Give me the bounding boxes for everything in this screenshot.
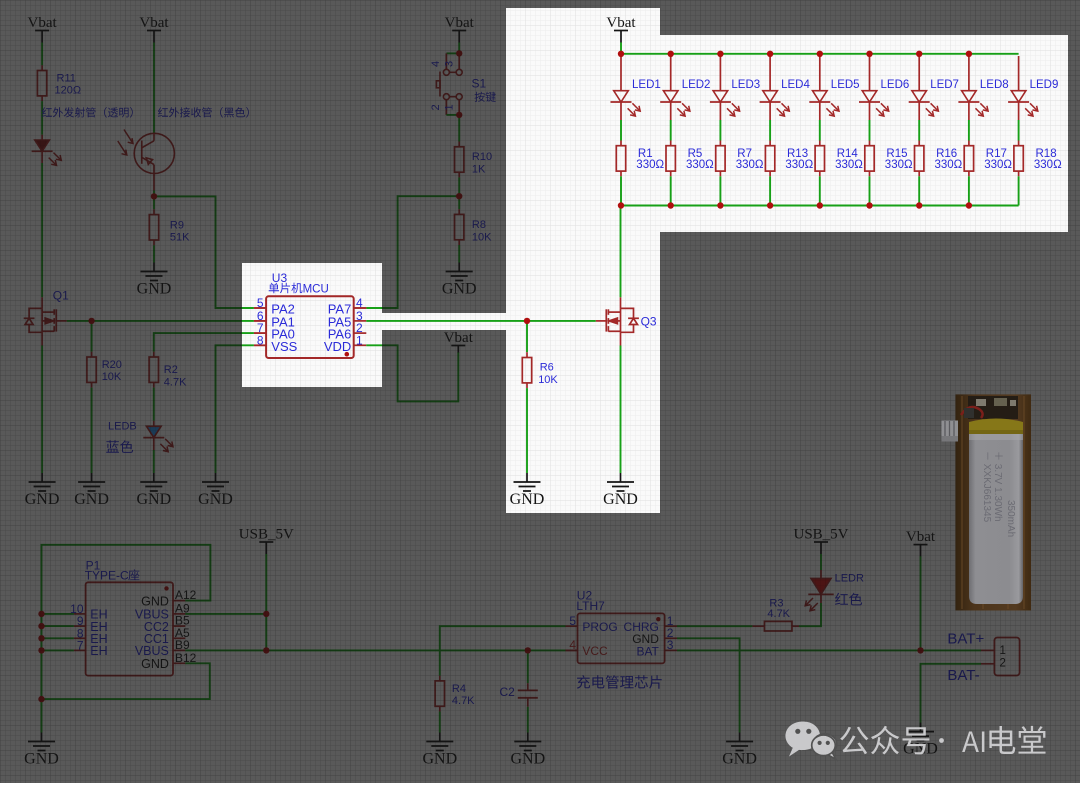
junction node top bus col 7	[916, 51, 922, 57]
svg-text:LED1: LED1	[632, 79, 661, 91]
junction nodes left rail	[38, 696, 44, 702]
junction node top bus col 5	[817, 51, 823, 57]
svg-text:LED4: LED4	[781, 79, 810, 91]
svg-text:＋ 3.7V 1.30Wh: ＋ 3.7V 1.30Wh	[992, 451, 1003, 522]
svg-text:330Ω: 330Ω	[636, 159, 664, 171]
junction node bottom bus col 7	[916, 202, 922, 208]
pin 7 EH	[74, 649, 86, 651]
wire node to MCU pin 5 PA2	[154, 196, 254, 308]
resistor R9	[149, 215, 158, 240]
wire Q3 source to ground	[620, 332, 622, 345]
svg-text:1: 1	[356, 333, 363, 347]
ground (P1)	[28, 733, 55, 751]
junction node bottom bus col 1	[618, 202, 624, 208]
wire R6 to ground	[526, 383, 528, 388]
junction node VCC / C2	[525, 647, 531, 653]
battery photo	[956, 394, 1032, 610]
wire R11 to IR LED	[41, 96, 43, 101]
svg-text:330Ω: 330Ω	[835, 159, 863, 171]
wire left rail to pin 8	[42, 637, 74, 639]
svg-text:U3: U3	[272, 271, 288, 285]
pin 10 EH	[74, 613, 86, 615]
svg-text:5: 5	[257, 296, 264, 310]
wire left rail to pin 9	[42, 625, 74, 627]
wire U2 GND to ground	[677, 638, 740, 732]
svg-text:330Ω: 330Ω	[686, 159, 714, 171]
junction node bottom bus col 4	[767, 202, 773, 208]
pin 1 marker dot P1	[164, 586, 168, 590]
svg-text:GND: GND	[510, 491, 545, 508]
svg-text:LED7: LED7	[930, 79, 959, 91]
resistor R8	[455, 214, 464, 239]
svg-text:VSS: VSS	[271, 339, 297, 354]
junction node S1 bottom	[456, 112, 462, 118]
junction node top bus col 1	[618, 51, 624, 57]
wire node to MCU pin 6 PA1	[92, 320, 254, 322]
svg-text:－ XXKJ661345: － XXKJ661345	[981, 451, 992, 523]
junction nodes left rail	[38, 611, 44, 617]
pin 5 PA2 / pin 4 PA7	[254, 307, 266, 309]
pin 1 marker dot U2	[656, 617, 660, 621]
junction node top bus col 3	[717, 51, 723, 57]
ground (R6)	[514, 473, 541, 491]
wire node to R9	[153, 196, 155, 209]
LED LED7 with resistor R16 branch	[918, 56, 920, 91]
wire node to R6	[526, 321, 528, 352]
junction nodes left rail	[38, 635, 44, 641]
ground (C2)	[514, 733, 541, 751]
pin 7 PA0 / pin 2 PA6	[254, 332, 266, 334]
junction node bottom bus col 3	[717, 202, 723, 208]
ground (R8)	[446, 263, 473, 281]
ground (VSS)	[202, 473, 229, 491]
LED LED9 with resistor R18 branch	[1018, 56, 1020, 91]
wire LEDB to ground	[153, 438, 155, 450]
junction node bottom bus col 8	[966, 202, 972, 208]
svg-text:4: 4	[356, 296, 363, 310]
junction nodes left rail	[38, 647, 44, 653]
svg-text:VDD: VDD	[324, 339, 351, 354]
wire U2 BAT to battery node	[677, 649, 921, 651]
pin 1 marker dot	[345, 352, 350, 357]
wire R9 to ground	[153, 240, 155, 245]
wire S1 to R10	[458, 115, 460, 142]
LED LED2 with resistor R5 branch	[670, 56, 672, 91]
resistor R10	[455, 147, 464, 172]
ground (U2)	[726, 733, 753, 751]
svg-text:Q3: Q3	[641, 315, 657, 329]
pin 5 PROG	[566, 625, 578, 627]
wire left rail to pin 10	[42, 613, 74, 615]
junction node A9 / USB_5V	[263, 611, 269, 617]
transistor Q1 (N-MOSFET)	[24, 308, 67, 332]
junction node BAT+	[917, 647, 923, 653]
op-amp U2 LTH7 box	[578, 613, 665, 663]
watermark WeChat icon	[785, 722, 820, 757]
op-amp U3 MCU box	[266, 296, 354, 358]
svg-text:8: 8	[257, 333, 264, 347]
label 单片机MCU	[269, 283, 303, 294]
LED LED4 with resistor R13 branch	[769, 56, 771, 91]
junction node Q1 gate / R20 / PA1	[88, 318, 94, 324]
wire node to C2	[527, 650, 529, 683]
wire MCU pin 3 PA5 to Q3 gate	[366, 320, 527, 322]
svg-text:LED3: LED3	[731, 79, 760, 91]
resistor R11	[37, 71, 46, 96]
junction node emitter / R9 / PA2	[151, 193, 157, 199]
junction node bottom bus col 2	[668, 202, 674, 208]
svg-text:330Ω: 330Ω	[736, 159, 764, 171]
wire USB_5V rail	[265, 554, 267, 650]
svg-text:GND: GND	[603, 491, 638, 508]
wire P1 VBUS A9 to USB_5V rail	[185, 613, 266, 615]
wire U2 CHRG to R3	[677, 625, 752, 627]
wire phototransistor emitter to node	[153, 165, 155, 191]
wire MCU pin 1 VDD to Vbat	[366, 345, 458, 401]
battery wire connector tab	[942, 421, 959, 442]
junction node B9 / USB_5V	[263, 647, 269, 653]
wire Vbat to S1	[458, 43, 460, 54]
svg-text:LED9: LED9	[1030, 79, 1059, 91]
pin 4 VCC	[566, 649, 578, 651]
svg-text:330Ω: 330Ω	[935, 159, 963, 171]
svg-text:330Ω: 330Ω	[984, 159, 1012, 171]
wire Vbat to phototransistor collector	[153, 43, 155, 134]
ground (R4)	[426, 733, 453, 751]
LED LED6 with resistor R15 branch	[869, 56, 871, 91]
ground (Q3)	[607, 473, 634, 491]
wire LED bus to Q3 drain	[620, 206, 622, 298]
ground (Q1 source)	[29, 473, 56, 491]
wire node to R20	[91, 321, 93, 352]
infrared emitter LED	[35, 140, 50, 151]
svg-text:R6: R6	[540, 362, 554, 374]
svg-text:MCU: MCU	[303, 283, 329, 295]
pin B9 VBUS	[173, 649, 185, 651]
svg-text:LED2: LED2	[682, 79, 711, 91]
wire node to connector pin 1	[921, 649, 982, 651]
label 红外接收管（黑色）	[158, 107, 249, 118]
wire IR LED to Q1 drain	[41, 152, 43, 164]
LED LED8 with resistor R17 branch	[968, 56, 970, 91]
watermark text 公众号 · AI电堂	[840, 726, 929, 755]
wire P1 GND B12 loop to left rail	[42, 663, 210, 699]
pin 8 VSS / pin 1 VDD	[254, 344, 266, 346]
svg-text:330Ω: 330Ω	[1034, 159, 1062, 171]
svg-text:350mAh: 350mAh	[1005, 500, 1016, 537]
resistor R2	[149, 357, 158, 382]
junction node bottom bus col 6	[866, 202, 872, 208]
svg-text:LED6: LED6	[881, 79, 910, 91]
LED LED5 with resistor R14 branch	[819, 56, 821, 91]
ground (LEDB)	[140, 473, 167, 491]
connector P1 TYPE-C box	[86, 582, 173, 675]
svg-text:10K: 10K	[538, 374, 558, 386]
pin B12 GND	[173, 662, 185, 664]
resistor R4	[435, 681, 444, 706]
junction node PA5 / R6 / Q3 gate	[524, 318, 530, 324]
svg-text:330Ω: 330Ω	[885, 159, 913, 171]
junction node bottom bus col 5	[817, 202, 823, 208]
junction node top bus col 6	[866, 51, 872, 57]
ground (battery)	[907, 723, 934, 741]
pin A9 VBUS	[173, 613, 185, 615]
junction node top bus col 4	[767, 51, 773, 57]
LED LEDB (blue)	[147, 426, 162, 437]
pin A5 CC1	[173, 637, 185, 639]
wire LEDR to USB_5V	[820, 570, 822, 578]
LED LED3 with resistor R7 branch	[719, 56, 721, 91]
svg-text:LED5: LED5	[831, 79, 860, 91]
wire P1 VBUS B9 to U2 VCC	[185, 649, 565, 651]
phototransistor (IR receiver)	[134, 133, 174, 173]
pin 2 GND	[665, 637, 677, 639]
wire R10 to node	[458, 172, 460, 177]
svg-text:330Ω: 330Ω	[785, 159, 813, 171]
label 红色	[835, 593, 862, 606]
pin B5 CC2	[173, 625, 185, 627]
junction node S1 top	[456, 50, 462, 56]
wire R2 to LEDB	[153, 382, 155, 387]
capacitor C2	[518, 690, 538, 697]
wire R8 to ground	[458, 240, 460, 245]
label 蓝色	[106, 440, 133, 453]
pin 1 CHRG	[665, 625, 677, 627]
wire U2 PROG to R4	[440, 626, 566, 676]
junction nodes left rail	[38, 623, 44, 629]
wire C2 to ground	[527, 698, 529, 707]
resistor R20	[87, 357, 96, 382]
junction node top bus col 2	[668, 51, 674, 57]
battery printed text	[981, 451, 1016, 537]
pin 6 PA1 / pin 3 PA5	[254, 320, 266, 322]
wire connector pin 2 to ground	[981, 663, 994, 665]
svg-text:LED8: LED8	[980, 79, 1009, 91]
transistor Q3 (N-MOSFET)	[596, 308, 639, 332]
label 按键	[475, 92, 496, 102]
ground (R9)	[141, 263, 168, 281]
wire node to R8	[458, 196, 460, 209]
junction node R10 / R8 / PA7	[456, 193, 462, 199]
wire MCU pin 8 VSS to ground	[254, 344, 266, 346]
wire left rail to pin 7	[42, 649, 74, 651]
wire R4 to ground	[439, 706, 441, 711]
wire MCU pin 7 PA0 to R2	[254, 332, 266, 334]
connector battery header box	[994, 638, 1019, 676]
wire LED top bus	[621, 53, 1019, 55]
wire Vbat to R11	[41, 43, 43, 66]
wire LED bottom bus	[621, 205, 1019, 207]
pin 8 EH	[74, 637, 86, 639]
wire P1 GND A12 loop to left rail	[42, 545, 211, 733]
wire R3 to LEDR	[792, 625, 799, 627]
resistor R3	[764, 621, 792, 631]
label 充电管理芯片	[577, 675, 662, 688]
resistor R6	[522, 358, 531, 383]
pin 9 EH	[74, 625, 86, 627]
ground (R20)	[78, 473, 105, 491]
pin 3 BAT	[665, 649, 677, 651]
pin A12 GND	[173, 600, 185, 602]
svg-text:Vbat: Vbat	[606, 15, 636, 31]
junction node top bus col 8	[966, 51, 972, 57]
wire Vbat to battery node	[920, 556, 922, 650]
LED LEDR (red)	[811, 578, 831, 594]
wire Q1 gate to node	[67, 320, 92, 322]
wire Q1 source to ground	[41, 332, 43, 345]
wire node to MCU pin 4 PA7	[366, 196, 459, 308]
pushbutton S1	[446, 52, 459, 54]
wire node to Q3 gate	[527, 320, 596, 322]
wire R20 to ground	[91, 382, 93, 387]
LED LED1 with resistor R1 branch	[620, 56, 622, 91]
label 红外发射管（透明）	[42, 107, 133, 118]
wire Vbat to LED bus	[620, 43, 622, 54]
